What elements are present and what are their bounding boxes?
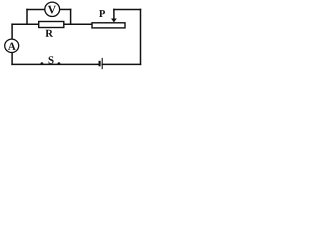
wire top main: left corner to resistor R (12, 23, 39, 25)
switch S right terminal dot (58, 62, 61, 65)
wire bottom: battery to bottom-right corner (102, 63, 140, 65)
rheostat label P (99, 10, 105, 17)
wire voltmeter branch right vertical (70, 9, 72, 24)
wire left side upper: top-left corner down to ammeter (11, 24, 13, 39)
wire rheostat slider stem (113, 9, 115, 19)
rheostat P box (92, 23, 125, 28)
voltmeter letter V (48, 6, 56, 14)
battery short plate (99, 61, 101, 67)
wire bottom: left corner through switch S to battery (12, 63, 100, 65)
voltmeter V circle (45, 2, 60, 16)
switch S left terminal dot (41, 62, 44, 65)
wire voltmeter branch left vertical (26, 9, 28, 24)
resistor R box (39, 22, 64, 28)
ammeter letter A (8, 43, 16, 50)
resistor label R (45, 30, 53, 37)
wire right side vertical (140, 9, 142, 64)
switch label S (49, 56, 54, 63)
wire voltmeter branch top left (27, 8, 45, 10)
wire voltmeter branch top right (60, 8, 71, 10)
battery long plate (101, 58, 103, 69)
rheostat slider arrowhead (111, 19, 117, 23)
wire top right: rheostat slider to top-right corner (114, 8, 141, 10)
wire left side lower: ammeter down to bottom-left corner (11, 53, 13, 65)
ammeter A circle (5, 39, 19, 52)
wire top main: resistor R to rheostat P (64, 23, 92, 25)
